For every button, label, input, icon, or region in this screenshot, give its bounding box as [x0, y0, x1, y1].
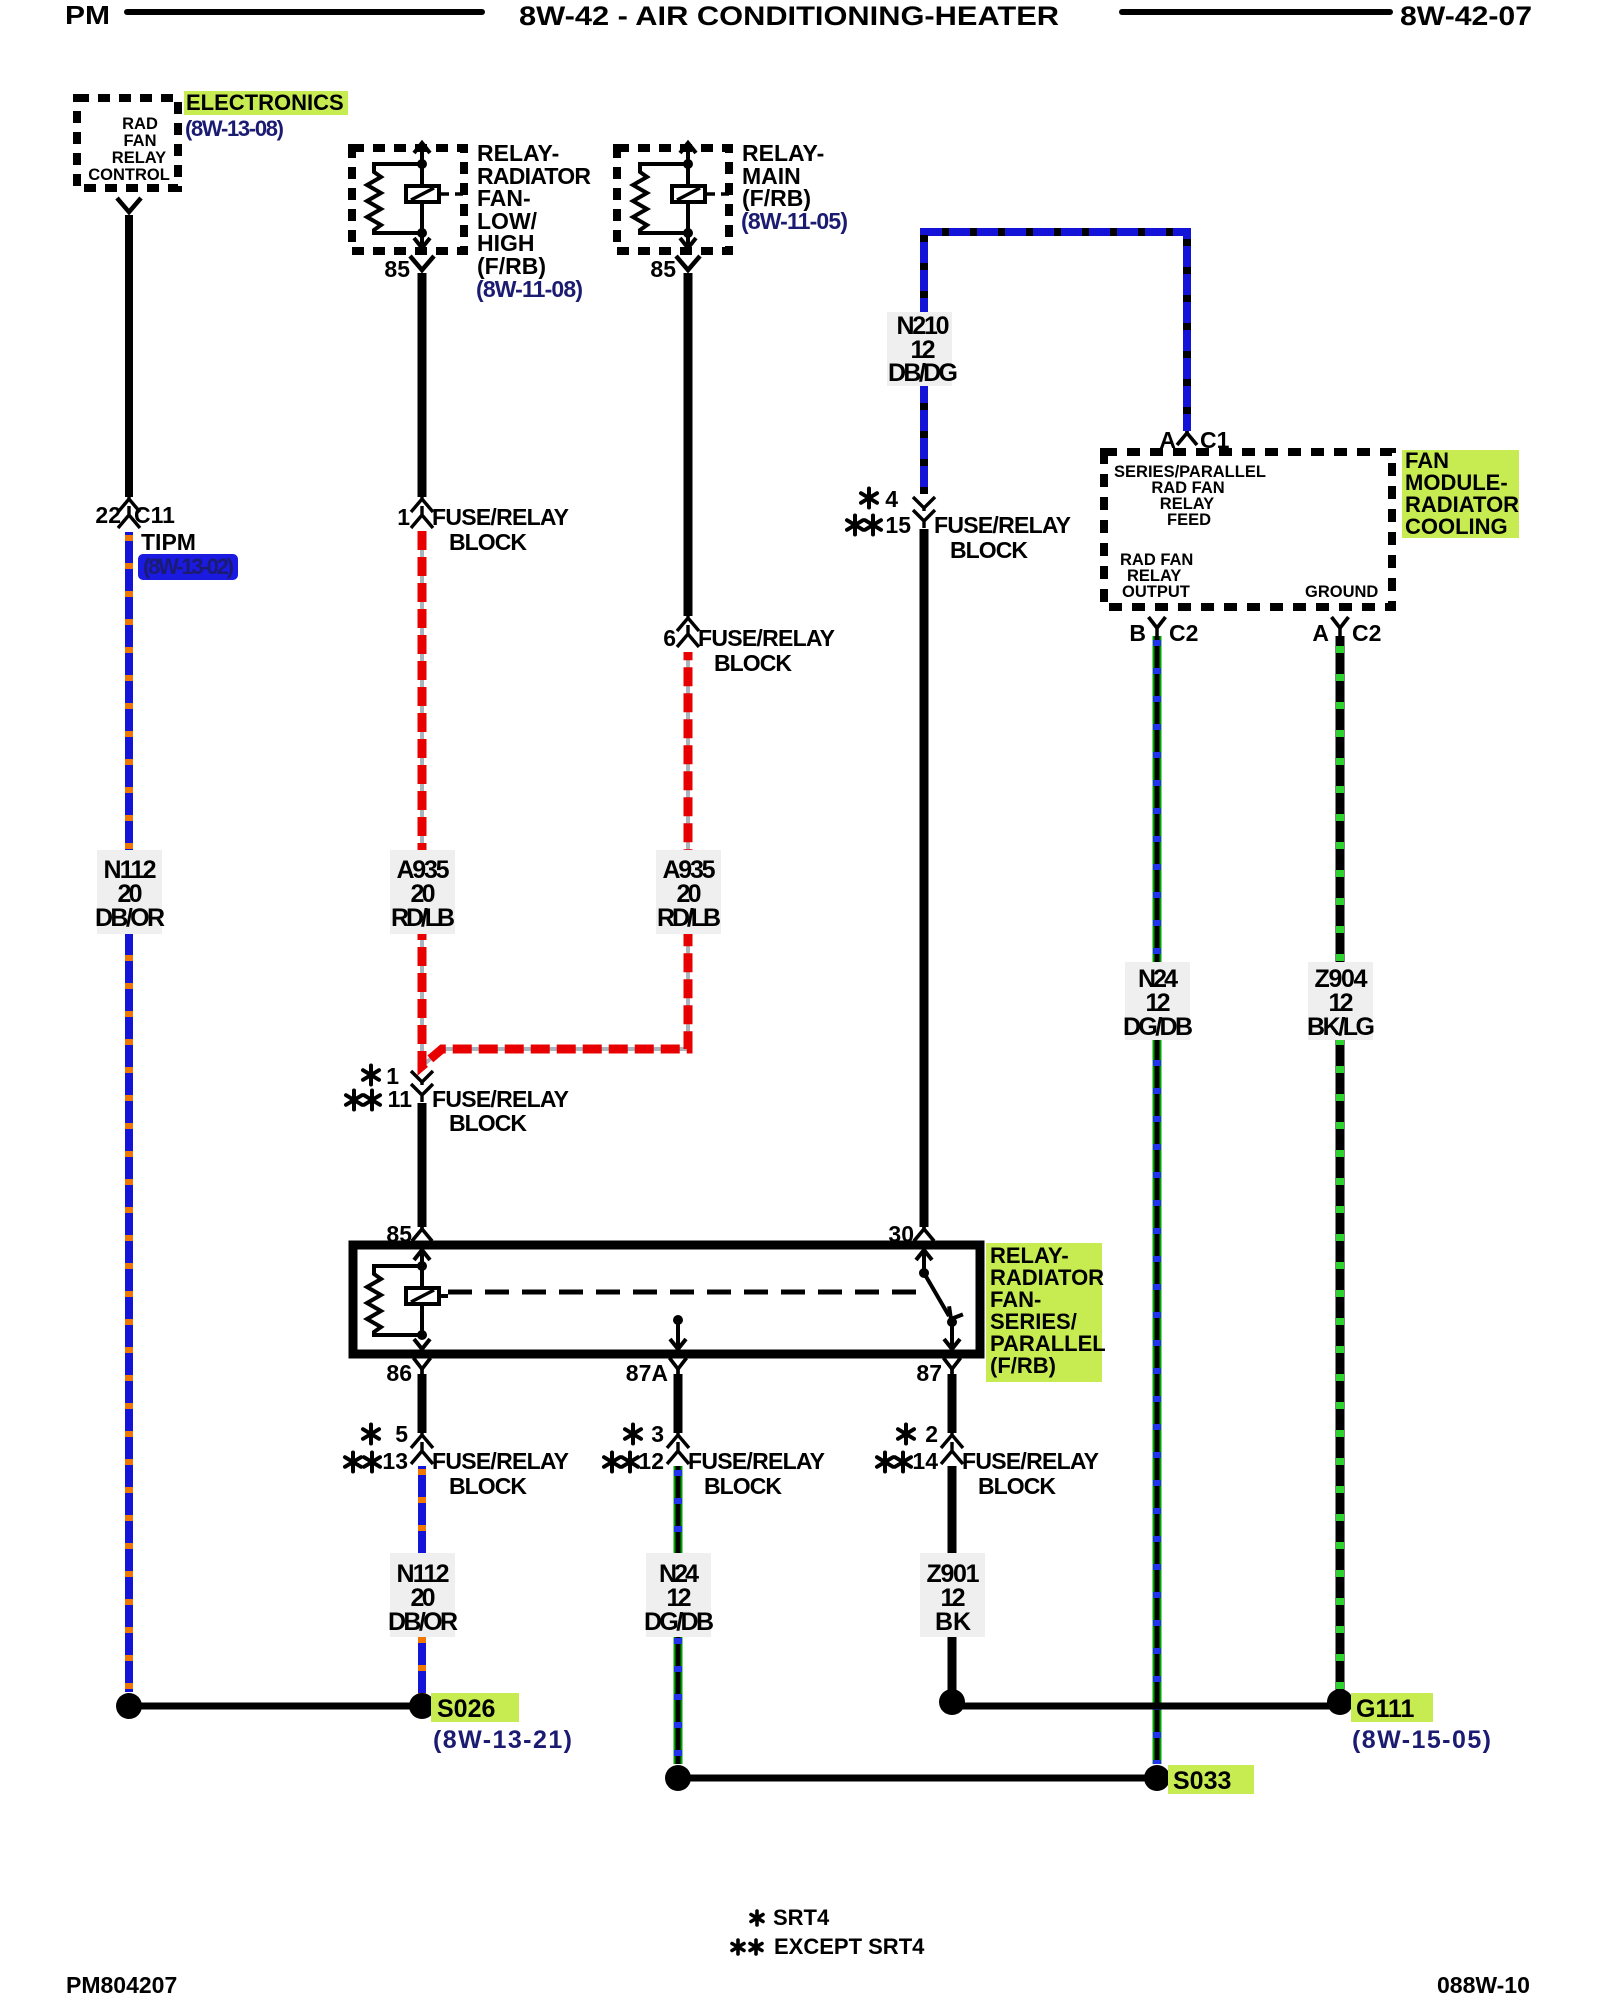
svg-text:FEED: FEED	[1167, 511, 1211, 529]
svg-text:C2: C2	[1169, 620, 1198, 646]
svg-text:86: 86	[386, 1360, 412, 1386]
svg-text:3: 3	[651, 1421, 664, 1447]
svg-text:8W-42 - AIR CONDITIONING-HEATE: 8W-42 - AIR CONDITIONING-HEATER	[519, 1, 1059, 31]
svg-text:BLOCK: BLOCK	[950, 537, 1028, 563]
svg-text:FAN: FAN	[124, 132, 157, 150]
svg-text:DB/OR: DB/OR	[388, 1608, 458, 1636]
svg-text:2: 2	[925, 1421, 938, 1447]
svg-text:85: 85	[384, 256, 410, 282]
svg-text:BLOCK: BLOCK	[978, 1473, 1056, 1499]
svg-text:S033: S033	[1173, 1767, 1231, 1795]
svg-text:EXCEPT SRT4: EXCEPT SRT4	[774, 1934, 925, 1959]
svg-text:BLOCK: BLOCK	[449, 1110, 527, 1136]
svg-text:15: 15	[885, 512, 911, 538]
svg-text:(8W-13-08): (8W-13-08)	[185, 116, 284, 141]
svg-text:87: 87	[916, 1360, 942, 1386]
svg-text:FUSE/RELAY: FUSE/RELAY	[432, 1448, 569, 1474]
svg-text:DG/DB: DG/DB	[644, 1608, 714, 1636]
svg-text:BK: BK	[935, 1608, 971, 1636]
svg-text:12: 12	[638, 1448, 664, 1474]
svg-text:(F/RB): (F/RB)	[990, 1353, 1056, 1378]
svg-text:RAD: RAD	[122, 115, 158, 133]
svg-text:FUSE/RELAY: FUSE/RELAY	[698, 625, 835, 651]
svg-text:TIPM: TIPM	[141, 529, 196, 555]
svg-text:OUTPUT: OUTPUT	[1122, 583, 1190, 601]
svg-text:85: 85	[386, 1221, 412, 1247]
svg-text:DG/DB: DG/DB	[1123, 1013, 1193, 1041]
svg-text:PM: PM	[65, 0, 110, 30]
svg-text:87A: 87A	[626, 1360, 668, 1386]
svg-text:11: 11	[388, 1086, 413, 1112]
svg-text:(8W-11-08): (8W-11-08)	[476, 276, 583, 302]
svg-text:85: 85	[650, 256, 676, 282]
svg-text:BLOCK: BLOCK	[449, 529, 527, 555]
svg-text:FUSE/RELAY: FUSE/RELAY	[934, 512, 1071, 538]
svg-text:(8W-15-05): (8W-15-05)	[1352, 1726, 1491, 1754]
svg-text:14: 14	[912, 1448, 938, 1474]
svg-text:C2: C2	[1352, 620, 1381, 646]
svg-text:1: 1	[397, 504, 410, 530]
svg-text:RD/LB: RD/LB	[657, 904, 721, 932]
svg-text:A: A	[1312, 620, 1329, 646]
svg-text:PM804207: PM804207	[66, 1972, 177, 1998]
svg-text:FUSE/RELAY: FUSE/RELAY	[688, 1448, 825, 1474]
svg-text:GROUND: GROUND	[1305, 583, 1378, 601]
svg-text:RELAY: RELAY	[112, 149, 166, 167]
svg-text:FUSE/RELAY: FUSE/RELAY	[962, 1448, 1099, 1474]
svg-text:FUSE/RELAY: FUSE/RELAY	[432, 1086, 569, 1112]
svg-text:088W-10: 088W-10	[1437, 1972, 1530, 1998]
svg-text:SRT4: SRT4	[773, 1905, 830, 1930]
svg-text:DB/OR: DB/OR	[95, 904, 165, 932]
svg-text:S026: S026	[437, 1695, 495, 1723]
svg-text:BK/LG: BK/LG	[1307, 1013, 1375, 1041]
svg-text:4: 4	[885, 486, 898, 512]
svg-text:C11: C11	[134, 502, 175, 528]
svg-text:C1: C1	[1200, 427, 1230, 453]
svg-text:DB/DG: DB/DG	[888, 359, 958, 387]
svg-text:13: 13	[382, 1448, 408, 1474]
svg-text:30: 30	[888, 1221, 914, 1247]
svg-text:5: 5	[395, 1421, 408, 1447]
svg-text:BLOCK: BLOCK	[704, 1473, 782, 1499]
svg-text:8W-42-07: 8W-42-07	[1400, 1, 1532, 31]
svg-text:(8W-11-05): (8W-11-05)	[741, 208, 848, 234]
svg-text:CONTROL: CONTROL	[88, 166, 170, 184]
svg-text:ELECTRONICS: ELECTRONICS	[186, 90, 344, 115]
svg-text:A: A	[1159, 427, 1176, 453]
svg-text:RD/LB: RD/LB	[391, 904, 455, 932]
svg-text:BLOCK: BLOCK	[714, 650, 792, 676]
svg-text:COOLING: COOLING	[1405, 514, 1508, 539]
svg-text:6: 6	[663, 625, 676, 651]
svg-text:B: B	[1129, 620, 1146, 646]
svg-text:G111: G111	[1356, 1695, 1414, 1723]
svg-text:22: 22	[95, 502, 121, 528]
svg-text:BLOCK: BLOCK	[449, 1473, 527, 1499]
svg-text:(8W-13-02): (8W-13-02)	[143, 554, 234, 579]
svg-text:(8W-13-21): (8W-13-21)	[433, 1726, 572, 1754]
svg-text:FUSE/RELAY: FUSE/RELAY	[432, 504, 569, 530]
